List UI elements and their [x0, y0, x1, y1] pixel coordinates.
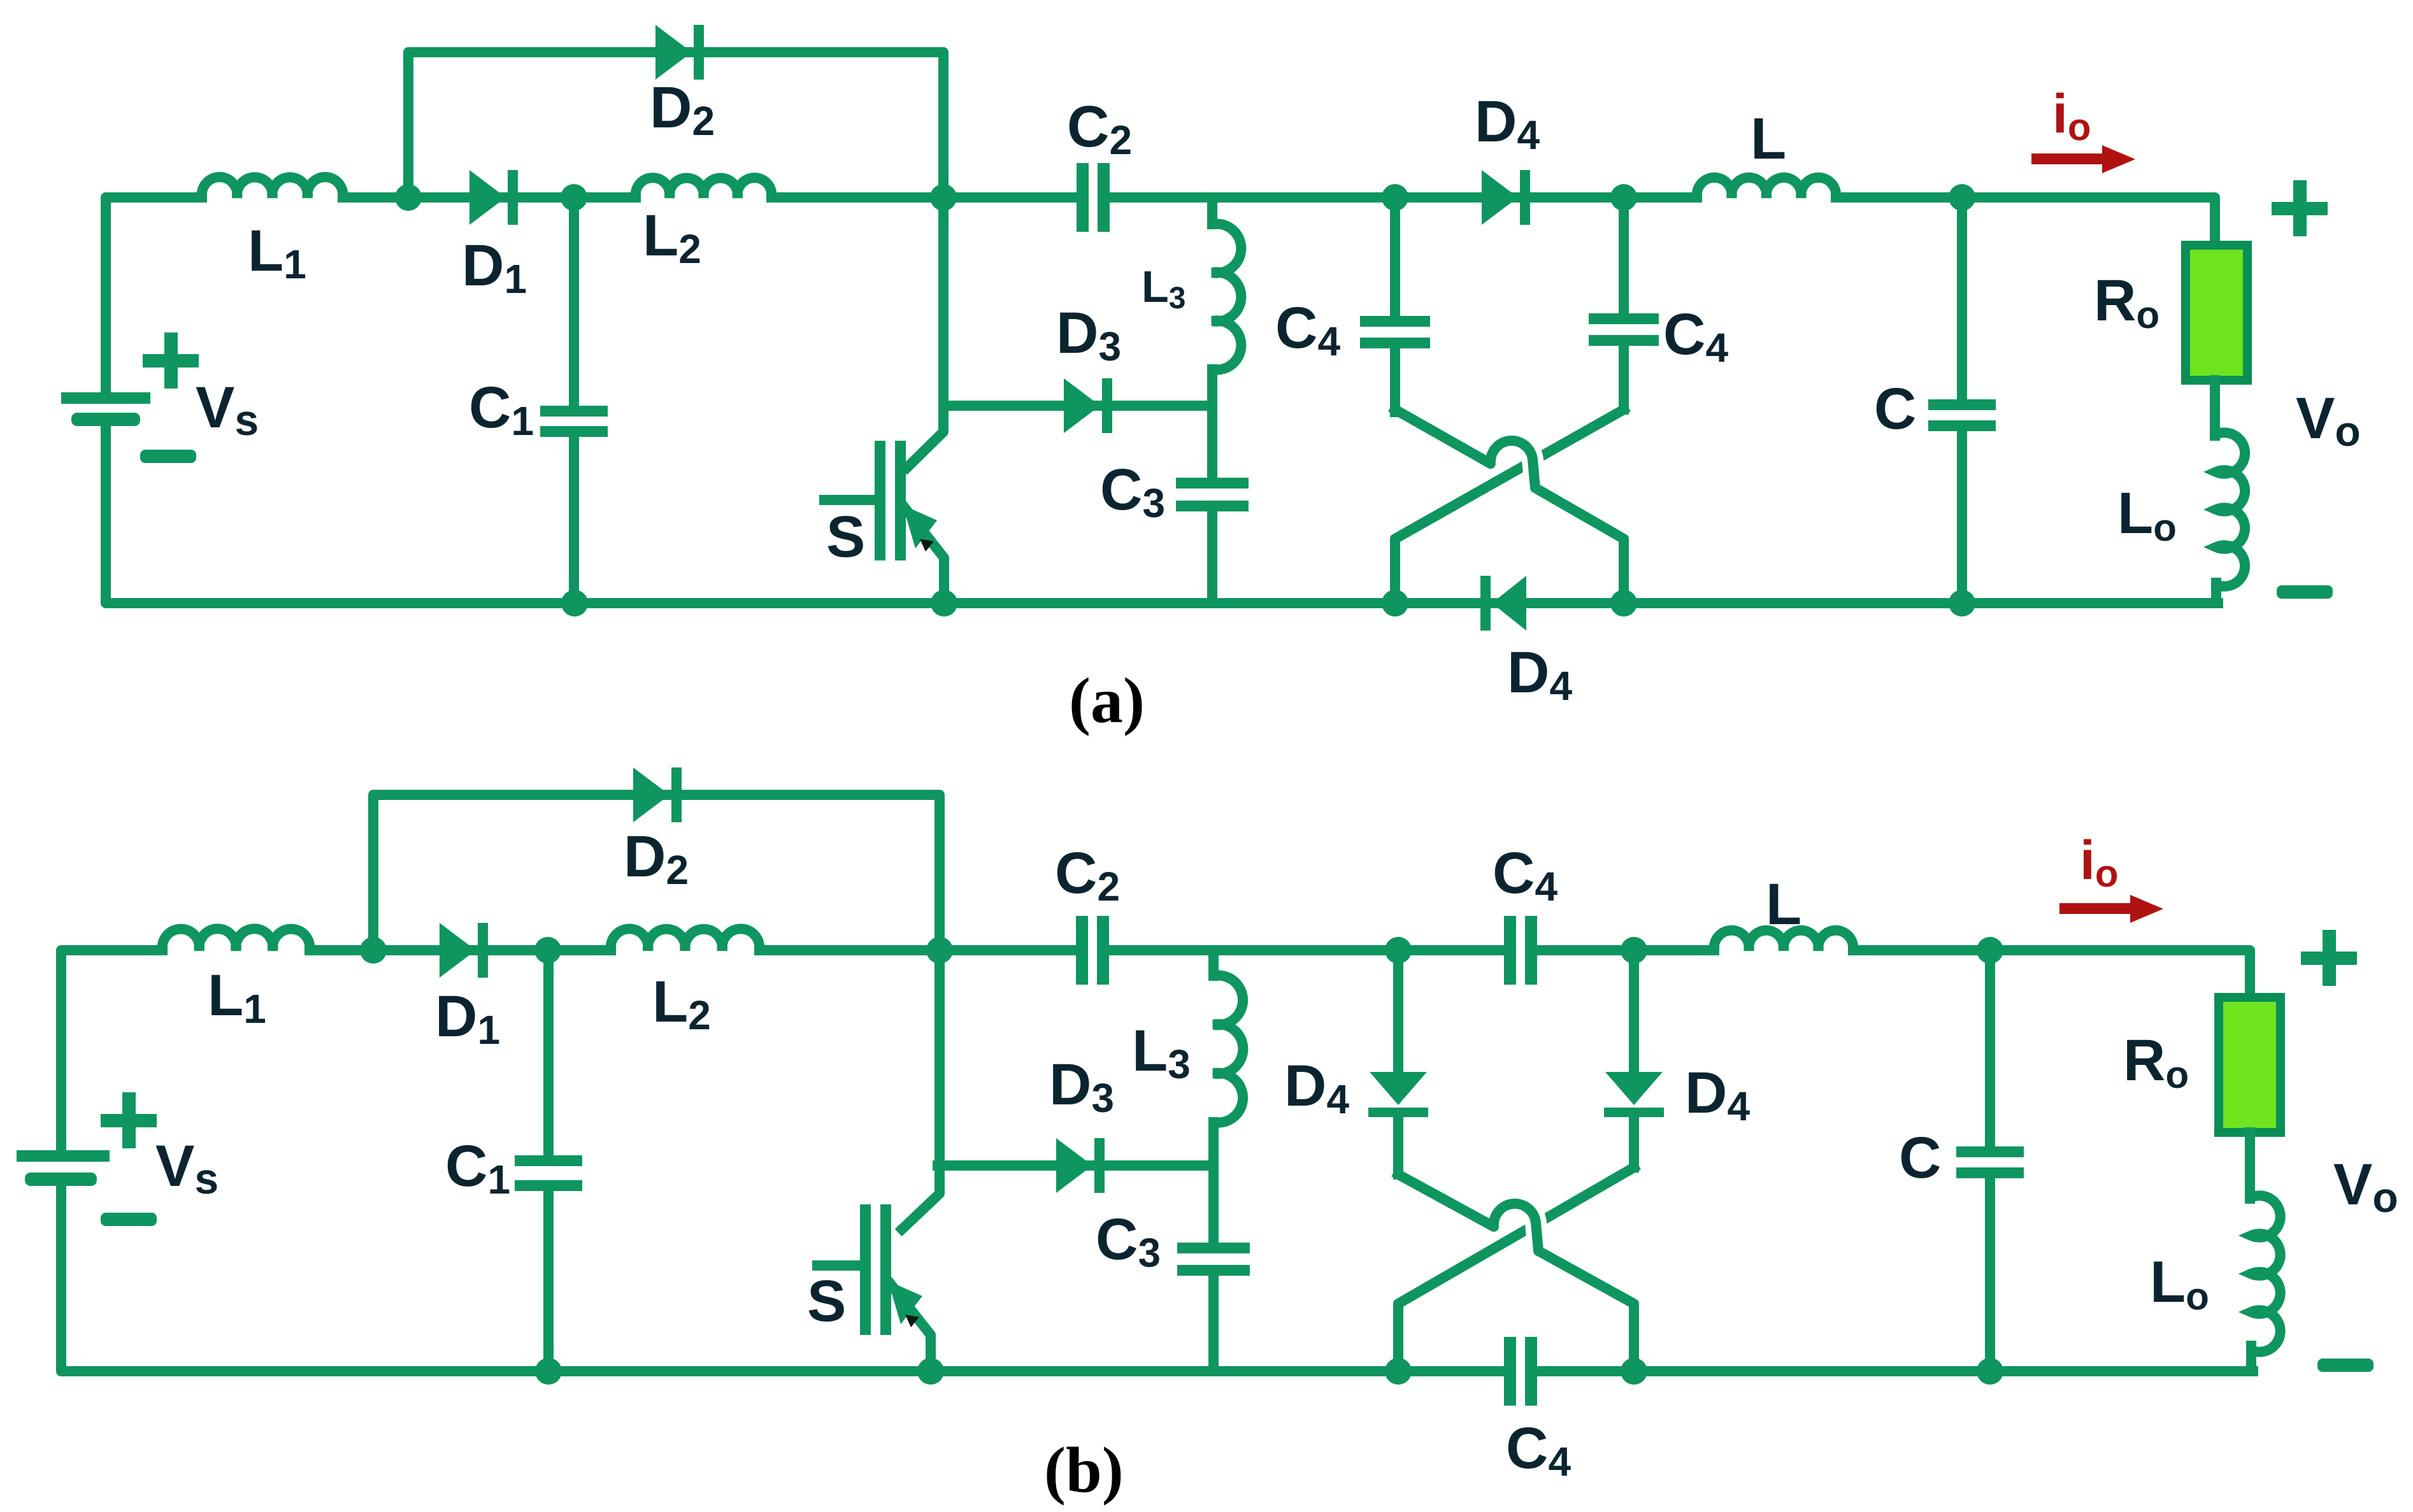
- svg-text:Vs: Vs: [155, 1134, 218, 1203]
- resistor Ro (a): [2186, 245, 2247, 380]
- node C top (b): [1977, 937, 2003, 964]
- wire top rail L2 to switch node (a): [771, 192, 943, 203]
- battery Vs (b) short plate: [25, 1173, 97, 1186]
- svg-text:Lo: Lo: [2117, 481, 2177, 549]
- wire top rail L1 to D2 node (b): [310, 945, 373, 955]
- capacitor C3 (b): [1208, 1166, 1219, 1243]
- svg-text:C4: C4: [1663, 302, 1728, 371]
- svg-text:L1: L1: [208, 963, 266, 1032]
- diode D4 left (b): [1370, 1072, 1427, 1105]
- capacitor C1 (b): [543, 950, 554, 1160]
- svg-text:Ro: Ro: [2094, 268, 2159, 336]
- switch S emitter wire (b): [891, 1284, 931, 1371]
- switch S body bar (a): [895, 441, 906, 560]
- svg-text:D4: D4: [1284, 1053, 1349, 1122]
- wire battery bottom to bottom rail (a): [106, 419, 2218, 603]
- svg-text:C1: C1: [469, 375, 534, 444]
- svg-text:L2: L2: [652, 969, 711, 1038]
- switch S gate bar (a): [875, 441, 885, 560]
- cross wire right-top to left-bottom (b): [1398, 1167, 1634, 1371]
- battery Vs (a) plus sign: [143, 354, 199, 367]
- svg-text:Vs: Vs: [196, 375, 259, 445]
- minus output terminal (b): [2317, 1359, 2374, 1372]
- inductor L (b): [1714, 931, 1854, 950]
- svg-text:L: L: [1751, 106, 1786, 171]
- svg-text:L1: L1: [248, 218, 306, 287]
- svg-text:io: io: [2080, 830, 2119, 895]
- battery Vs (b) long plate: [17, 1150, 110, 1162]
- svg-text:C2: C2: [1067, 94, 1132, 163]
- diode D2 (a): [655, 25, 692, 80]
- current arrow io (b): [2059, 903, 2136, 914]
- battery Vs (a) minus sign: [140, 450, 196, 463]
- node C4 top-left (b): [1385, 937, 1412, 964]
- node cross bottom-left (a): [1382, 590, 1408, 617]
- inductor L2 (b): [611, 929, 760, 950]
- battery Vs (a) short plate: [71, 413, 140, 426]
- wire top rail node to D1 (b): [373, 945, 442, 955]
- diode D4 top (a): [1395, 192, 1624, 203]
- wire C4 right to cross (a): [1619, 340, 1629, 410]
- node D4 top-right (a): [1610, 184, 1637, 211]
- diode D4 right (b): [1605, 1072, 1663, 1105]
- svg-text:D4: D4: [1507, 640, 1572, 709]
- switch S collector wire (a): [907, 197, 943, 467]
- svg-text:D3: D3: [1049, 1052, 1114, 1121]
- wire top rail node to C2 (b): [940, 945, 1075, 955]
- battery Vs (b) plus sign: [101, 1114, 157, 1127]
- wire right branch to D4 right (b): [1629, 950, 1639, 1076]
- inductor L1 (b): [162, 929, 310, 950]
- switch S gate lead (b): [817, 1260, 860, 1271]
- svg-text:Vo: Vo: [2296, 386, 2361, 455]
- svg-text:L: L: [1766, 872, 1801, 937]
- wire top rail L to C node (b): [1853, 945, 1990, 955]
- svg-text:D4: D4: [1475, 89, 1540, 158]
- svg-text:S: S: [826, 504, 865, 569]
- svg-text:C4: C4: [1506, 1416, 1571, 1485]
- wire top rail C1 node to L2 (b): [548, 945, 611, 955]
- svg-text:D1: D1: [462, 233, 527, 302]
- node C1 top (a): [561, 184, 587, 211]
- circuit (a) left wire from battery to top rail: [106, 197, 202, 398]
- svg-text:C1: C1: [445, 1134, 510, 1202]
- node C bottom (b): [1977, 1358, 2003, 1385]
- node cross bottom-right (b): [1621, 1358, 1647, 1385]
- plus output terminal (b): [2301, 952, 2357, 965]
- svg-text:C3: C3: [1096, 1207, 1161, 1276]
- capacitor C4 bottom (b): [1504, 1337, 1516, 1406]
- node switch collector / C2 junction (a): [930, 184, 957, 211]
- wire left branch to C4 (a): [1390, 197, 1400, 318]
- wire top rail C2 to D4 node (b): [1109, 945, 1398, 955]
- node D4 top-left (a): [1382, 184, 1408, 211]
- node C4 top-right (b): [1621, 937, 1647, 964]
- svg-text:(a): (a): [1069, 665, 1145, 737]
- svg-text:(b): (b): [1044, 1434, 1124, 1506]
- wire battery bottom to bottom rail (b): [61, 1179, 1504, 1371]
- wire top rail node to D1 (a): [408, 192, 469, 203]
- node C1 bottom (b): [535, 1358, 562, 1385]
- svg-text:L3: L3: [1132, 1018, 1191, 1087]
- inductor L (a): [1697, 178, 1836, 197]
- wire Ro to Lo (a): [2210, 380, 2220, 436]
- wire D1 to C1 node (a): [517, 192, 574, 203]
- node junction D2 riser (a): [395, 184, 422, 211]
- diode D2 loop wire (a): [408, 52, 943, 197]
- cross wire right-top to left-bottom (a): [1395, 410, 1624, 603]
- wire bottom rail right of C4 (b): [1537, 1366, 2253, 1376]
- svg-text:C: C: [1874, 376, 1916, 441]
- wire Ro to Lo (b): [2245, 1132, 2255, 1199]
- wire top rail C2 to D4 node (a): [1110, 192, 1395, 203]
- svg-text:Ro: Ro: [2123, 1028, 2189, 1096]
- svg-text:C4: C4: [1275, 296, 1340, 364]
- capacitor C (a): [1957, 197, 1967, 399]
- wire left branch to D4 left (b): [1393, 950, 1403, 1076]
- capacitor C4 top (b): [1398, 945, 1504, 955]
- capacitor C2 (b): [1076, 916, 1088, 985]
- node C top (a): [1949, 184, 1975, 211]
- diode D1 (b): [442, 945, 486, 955]
- switch S emitter arrow (b): [888, 1281, 922, 1324]
- diode D3 (b): [938, 1160, 1214, 1171]
- svg-text:D2: D2: [624, 824, 689, 893]
- node C bottom (a): [1949, 590, 1975, 617]
- node cross bottom-right (a): [1610, 590, 1637, 617]
- inductor Lo (a): [2216, 432, 2245, 586]
- capacitor C1 (a): [569, 197, 579, 406]
- battery Vs (a) long plate: [61, 392, 150, 404]
- resistor Ro (b): [2219, 997, 2281, 1132]
- svg-text:Lo: Lo: [2150, 1250, 2209, 1318]
- battery Vs (b) minus sign: [101, 1213, 157, 1226]
- switch S emitter wire (a): [905, 508, 944, 603]
- node switch collector / C2 junction (b): [926, 937, 953, 964]
- wire top rail C1 node to L2 (a): [574, 192, 636, 203]
- diode D3 (a): [944, 401, 1212, 411]
- wire top rail D4 node to L (a): [1624, 192, 1697, 203]
- svg-text:C4: C4: [1493, 841, 1557, 909]
- inductor L3 (b): [1208, 950, 1219, 976]
- diode D1 (a): [469, 192, 517, 203]
- capacitor C (b): [1985, 950, 1995, 1146]
- node emitter bottom rail (b): [917, 1358, 944, 1385]
- diode D4 bottom (a): [1492, 576, 1526, 631]
- node emitter bottom rail (a): [931, 590, 957, 617]
- switch S collector wire (b): [902, 950, 940, 1229]
- inductor L2 (a): [636, 178, 772, 197]
- switch S gate lead (a): [824, 495, 875, 505]
- switch S emitter arrow (a): [903, 505, 937, 548]
- diode D2 loop wire (b): [373, 795, 940, 950]
- svg-text:D2: D2: [650, 75, 715, 144]
- inductor L3 (a): [1207, 197, 1217, 224]
- node C1 bottom (a): [561, 590, 588, 617]
- current arrow io (a): [2031, 153, 2108, 164]
- wire top rail C4 node to L (b): [1634, 945, 1714, 955]
- wire top rail L2 to switch node (b): [759, 945, 940, 955]
- node junction D2 riser (b): [360, 937, 387, 964]
- node cross bottom-left (b): [1385, 1358, 1412, 1385]
- wire top rail to Ro (b): [1990, 950, 2250, 1002]
- inductor Lo (b): [2251, 1195, 2281, 1352]
- minus output terminal (a): [2277, 585, 2333, 599]
- svg-text:C: C: [1899, 1125, 1941, 1190]
- svg-text:D1: D1: [435, 984, 500, 1053]
- inductor L1 (a): [202, 177, 343, 197]
- wire top rail node to C2 (a): [943, 192, 1077, 203]
- wire right branch to C4 (a): [1619, 197, 1629, 313]
- svg-text:Vo: Vo: [2333, 1152, 2398, 1221]
- wire top rail to Ro (a): [1962, 197, 2215, 250]
- svg-text:C2: C2: [1055, 841, 1120, 909]
- wire C4 left to cross (a): [1390, 343, 1400, 412]
- capacitor C4 right (a): [1589, 313, 1659, 324]
- wire top rail L1 to D2 node (a): [343, 192, 408, 203]
- capacitor C3 (a): [1207, 406, 1217, 478]
- capacitor C4 left (a): [1360, 316, 1430, 327]
- svg-text:io: io: [2052, 83, 2091, 148]
- node C1 top (b): [534, 937, 561, 964]
- capacitor C2 (a): [1077, 163, 1089, 232]
- cross wire left-top to right-bottom with hop (a): [1491, 441, 1535, 488]
- svg-text:D4: D4: [1685, 1060, 1750, 1129]
- switch S gate bar (b): [860, 1204, 871, 1335]
- plus output terminal (a): [2272, 202, 2328, 215]
- cross wire left-top to right-bottom with hop (b): [1494, 1204, 1538, 1251]
- svg-text:L2: L2: [643, 203, 701, 272]
- svg-text:C3: C3: [1100, 457, 1165, 526]
- svg-text:D3: D3: [1056, 301, 1121, 369]
- switch S body bar (b): [880, 1204, 891, 1335]
- svg-text:S: S: [807, 1269, 846, 1334]
- circuit (b) left wire from battery to top rail: [61, 950, 162, 1156]
- wire D1 to C1 node (b): [486, 945, 548, 955]
- svg-text:L3: L3: [1142, 262, 1185, 315]
- diode D2 (b): [633, 767, 669, 822]
- wire top rail L to C node (a): [1836, 192, 1962, 203]
